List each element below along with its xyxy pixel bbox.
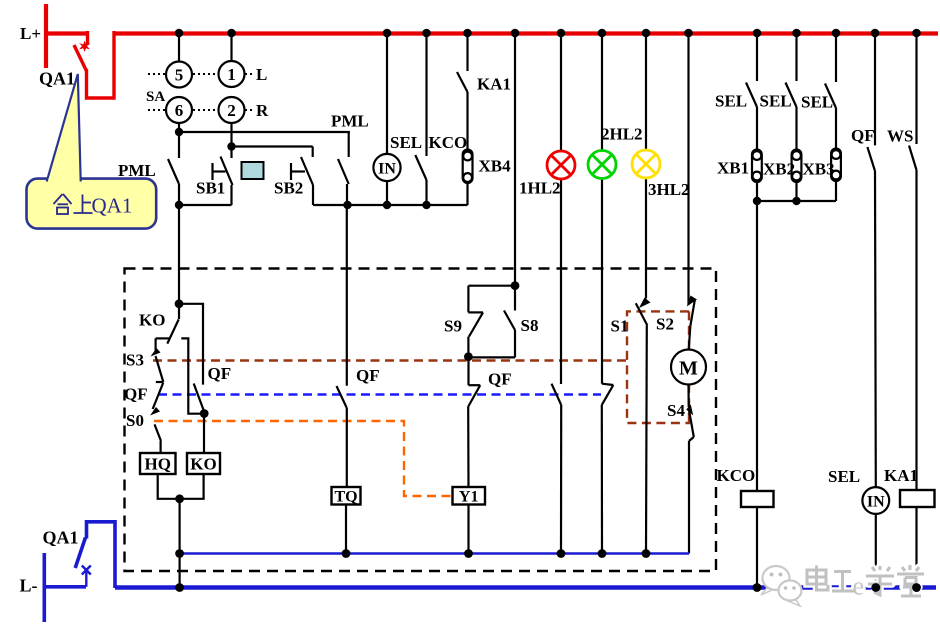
contact SEL 2 (XB2 branch) (786, 33, 797, 150)
junction SEL-IN column bottom (383, 201, 391, 209)
trip signal dashed line (brown) S3 row (153, 359, 627, 361)
junction XB1 bottom (753, 197, 761, 205)
junction IN at L- (871, 583, 880, 592)
contact WS (909, 33, 917, 490)
junction KCO at L- (753, 583, 762, 592)
SEL label 2 (760, 92, 792, 111)
SB1 label (196, 179, 225, 198)
breaker QA1 label (bottom) (43, 528, 79, 548)
contact S2 (689, 299, 695, 350)
wire TQ to neutral (345, 505, 347, 554)
SEL label (top) (390, 133, 422, 152)
wire branch to QF (KO coil path) (179, 304, 203, 385)
breaker QA1 label (top) (39, 69, 75, 89)
arrow S4 actuate (686, 405, 693, 416)
junction IN at L- (over watermark) (871, 583, 880, 592)
S9 label (444, 317, 462, 336)
indicator cyan block (242, 162, 264, 179)
watermark wechat icon (761, 566, 802, 606)
QA1 blue opening arrow (82, 566, 91, 587)
svg-text:QF: QF (208, 364, 232, 383)
svg-text:QF: QF (124, 385, 148, 404)
QA1 closing star mark (79, 41, 90, 53)
svg-text:S1: S1 (611, 317, 629, 336)
wire Y1 to neutral (467, 505, 469, 554)
junction XB2 bottom (792, 197, 800, 205)
junction inner neutral S1 (642, 549, 651, 558)
contact QF (1HL2 column) (552, 384, 562, 554)
2HL2 label (601, 125, 643, 144)
coil KCO (741, 491, 774, 507)
selector switch SA contact 1 (219, 61, 245, 87)
junction L- x179 (175, 583, 184, 592)
wire M to S4 (687, 385, 689, 408)
junction KA1 at L- (912, 583, 921, 592)
svg-text:QF: QF (488, 370, 512, 389)
svg-text:S3: S3 (126, 351, 144, 370)
wire IN to L- (875, 514, 877, 588)
node L label (256, 65, 267, 84)
junction inner neutral x179 (175, 549, 184, 558)
L- supply rail (blue) (115, 585, 936, 590)
contact S9 (468, 286, 483, 358)
KA1 label (bottom) (884, 466, 918, 485)
XB1 label (717, 159, 749, 178)
S0 label (126, 411, 144, 430)
wire PML/SB1 common bottom (179, 204, 232, 206)
svg-text:S9: S9 (444, 317, 462, 336)
junction KA1 at L- (over watermark) (912, 583, 921, 592)
L+ supply rail (red) (44, 4, 938, 68)
svg-text:SEL: SEL (390, 133, 422, 152)
junction KCO column bottom (422, 201, 430, 209)
watermark letter e (853, 572, 865, 601)
contact QF (Y1 column) (468, 357, 480, 487)
node L- label (20, 576, 38, 596)
junction inner neutral Y1 (464, 549, 473, 558)
svg-text:XB3: XB3 (803, 160, 835, 179)
selector switch SA contact 2 (219, 97, 245, 123)
KCO label (top) (429, 133, 468, 152)
contact S8 (504, 286, 515, 358)
svg-text:SB2: SB2 (274, 179, 303, 198)
arrow S2 actuate (687, 296, 697, 307)
contact SEL 1 (XB1 branch) (746, 33, 757, 150)
KCO label (bottom) (717, 466, 756, 485)
SEL label 1 (715, 92, 747, 111)
S1 label (611, 317, 629, 336)
connector XB4 (463, 150, 473, 206)
meter SEL IN (bottom) (862, 487, 889, 514)
svg-text:KO: KO (139, 311, 165, 330)
svg-text:6: 6 (175, 101, 184, 120)
watermark text 电工e学堂 white halo (807, 565, 924, 596)
close signal dashed line (blue) QF row (158, 393, 601, 395)
wire PML/SB1 net down into box (178, 205, 180, 304)
pushbutton SB2 (291, 147, 313, 206)
XB3 label (803, 160, 835, 179)
svg-text:TQ: TQ (334, 489, 357, 506)
svg-text:S0: S0 (126, 411, 144, 430)
svg-text:SEL: SEL (828, 467, 860, 486)
coil KA1 (900, 490, 935, 507)
XB4 label (479, 157, 512, 176)
contact QF (right) (867, 33, 875, 487)
svg-text:S2: S2 (656, 315, 674, 334)
junction inner neutral 2HL2 (598, 549, 607, 558)
watermark letter e halo (853, 572, 865, 601)
wire KA1 coil to L- (915, 507, 917, 588)
svg-text:XB1: XB1 (717, 159, 749, 178)
wire into KO coil (203, 414, 205, 453)
breaker QA1 (blue, bottom) (43, 522, 116, 622)
breaker QA1 (red, top) (74, 31, 114, 98)
svg-text:KA1: KA1 (477, 75, 511, 94)
svg-text:2HL2: 2HL2 (601, 125, 643, 144)
SEL label 3 (801, 93, 833, 112)
KA1 label (top) (477, 75, 511, 94)
meter SEL IN circle (373, 154, 400, 181)
svg-text:M: M (679, 358, 698, 380)
svg-text:KA1: KA1 (884, 466, 918, 485)
S8 label (521, 316, 539, 335)
lamp 2HL2 branch (601, 33, 603, 384)
svg-text:5: 5 (175, 66, 184, 85)
svg-text:SEL: SEL (715, 92, 747, 111)
arrow S3 actuate (151, 348, 161, 357)
pushbutton SB1 (213, 157, 233, 206)
svg-text:1: 1 (227, 65, 236, 84)
brown dashed box around S1 S2 M S4 (627, 311, 690, 423)
svg-text:QA1: QA1 (39, 69, 75, 89)
svg-text:IN: IN (378, 161, 396, 178)
contact S3 (156, 356, 164, 382)
node L+ label (20, 24, 41, 43)
junction KO branch split (175, 299, 184, 308)
contact QF (left chain) (153, 383, 164, 410)
node R label (256, 101, 269, 120)
junction inner neutral 1HL2 (557, 549, 566, 558)
junction S9/S8 top (511, 281, 520, 290)
contact KA1 (457, 33, 468, 150)
watermark text 电工e学堂 gray strokes (807, 565, 924, 596)
svg-text:KCO: KCO (717, 466, 756, 485)
svg-text:QA1: QA1 (43, 528, 79, 548)
svg-text:PML: PML (331, 112, 369, 131)
svg-text:XB2: XB2 (763, 160, 795, 179)
svg-text:XB4: XB4 (479, 157, 512, 176)
S3 label (126, 351, 144, 370)
contact QF (TQ column) (337, 386, 347, 487)
contact S1 (636, 303, 648, 553)
wire TQ column (346, 205, 348, 386)
svg-text:QF: QF (851, 126, 875, 145)
connector XB1 (752, 150, 762, 202)
motor M (671, 350, 706, 385)
svg-text:KCO: KCO (429, 133, 468, 152)
junction PML/SB1 bottom (175, 201, 183, 209)
wire XB common to KCO coil (756, 201, 758, 491)
lamp 2HL2 (green) (588, 151, 616, 179)
wire column SA left (178, 33, 180, 158)
svg-text:L-: L- (20, 576, 38, 596)
contact S0 (155, 424, 162, 453)
svg-text:2: 2 (227, 101, 236, 120)
junction coils common (175, 494, 184, 503)
lamp 1HL2 branch (560, 33, 562, 384)
svg-text:SEL: SEL (760, 92, 792, 111)
contact QF (2HL2 column) (602, 384, 614, 554)
svg-text:L+: L+ (20, 24, 41, 43)
wire S9/S8 feed column (514, 33, 516, 286)
SEL label (bottom) (828, 467, 860, 486)
control-section dashed boundary box (125, 269, 717, 572)
coil TQ (332, 487, 361, 505)
QF label (left chain) (124, 385, 148, 404)
junction below SA-6 (175, 128, 183, 136)
selector switch SA contact 5 (166, 62, 192, 88)
callout text 合上QA1 (54, 194, 93, 214)
wire XB1-XB3 common row (757, 200, 836, 202)
coil Y1 (453, 487, 486, 505)
wire row to PML second contact (179, 131, 350, 133)
svg-text:KO: KO (190, 455, 216, 474)
junction above KO coil (200, 409, 209, 418)
KO label (139, 311, 165, 330)
wire fork bypass (181, 338, 204, 413)
svg-text:Y1: Y1 (459, 489, 479, 506)
contact S4 (689, 409, 694, 554)
lamp 1HL2 (red) (547, 151, 575, 179)
coil KO (187, 453, 220, 474)
arrow S1 actuate (639, 298, 651, 309)
wire column SA right (230, 33, 232, 158)
PML label (second) (331, 112, 369, 131)
callout balloon 合上QA1 (27, 74, 157, 229)
wire S9/S8 top row (468, 285, 515, 287)
contact QF (KO coil path) (194, 384, 205, 412)
open signal dashed line (orange) S0 row to Y1 (154, 421, 452, 496)
SB2 label (274, 179, 303, 198)
wire S2/M feed column (687, 33, 689, 305)
meter SEL IN branch (386, 33, 388, 205)
QF label (right) (851, 126, 875, 145)
SA dotted linkage lines (148, 74, 254, 110)
wire row to SB2 (232, 145, 313, 147)
selector SA label (146, 89, 165, 105)
selector switch SA contact 6 (166, 97, 192, 123)
contact KO (self-test chain) (156, 304, 179, 353)
svg-text:S4: S4 (667, 401, 685, 420)
contact SEL 3 (XB3 branch) (825, 33, 836, 149)
svg-text:SEL: SEL (801, 93, 833, 112)
S2 label (656, 315, 674, 334)
svg-text:e: e (853, 572, 865, 601)
connector XB3 (831, 149, 841, 202)
junction inner neutral TQ (342, 549, 351, 558)
WS label (887, 127, 913, 146)
svg-text:S8: S8 (521, 316, 539, 335)
svg-text:QF: QF (356, 366, 380, 385)
1HL2 label (519, 179, 561, 198)
PML label (first) (118, 161, 156, 180)
contact PML (first) (168, 159, 179, 205)
junction below SA-2 (227, 142, 235, 150)
wire HQ/KO coils common (158, 474, 204, 588)
connector XB2 (792, 150, 802, 202)
svg-text:QA1: QA1 (92, 194, 133, 218)
svg-text:3HL2: 3HL2 (648, 180, 690, 199)
svg-text:IN: IN (867, 494, 885, 511)
inner neutral wire (blue) (180, 552, 689, 555)
3HL2 label (648, 180, 690, 199)
junction S9/S8 bottom (464, 352, 473, 361)
wire S9/S8 bottom row (468, 356, 515, 358)
junction TQ column top (343, 201, 351, 209)
lamp 3HL2 branch (645, 33, 647, 299)
svg-text:R: R (256, 101, 269, 120)
svg-text:WS: WS (887, 127, 913, 146)
junctions on L+ rail (175, 29, 921, 38)
arrow S0 actuate (150, 407, 160, 416)
svg-text:SA: SA (146, 89, 165, 105)
XB2 label (763, 160, 795, 179)
svg-text:L: L (256, 65, 267, 84)
svg-text:1HL2: 1HL2 (519, 179, 561, 198)
wire SB2/PML2 common bottom row (313, 204, 468, 206)
svg-text:SB1: SB1 (196, 179, 225, 198)
lamp 3HL2 (yellow) (632, 150, 660, 178)
S4 label (667, 401, 685, 420)
QF label (Y1 column) (488, 370, 512, 389)
wire KCO coil to L- (756, 507, 758, 588)
coil HQ (140, 453, 176, 474)
svg-text:HQ: HQ (144, 455, 170, 474)
contact KCO (top) (415, 33, 426, 205)
QF label (KO coil path) (208, 364, 232, 383)
svg-text:PML: PML (118, 161, 156, 180)
QF label (TQ column) (356, 366, 380, 385)
contact PML (second) (338, 132, 349, 205)
